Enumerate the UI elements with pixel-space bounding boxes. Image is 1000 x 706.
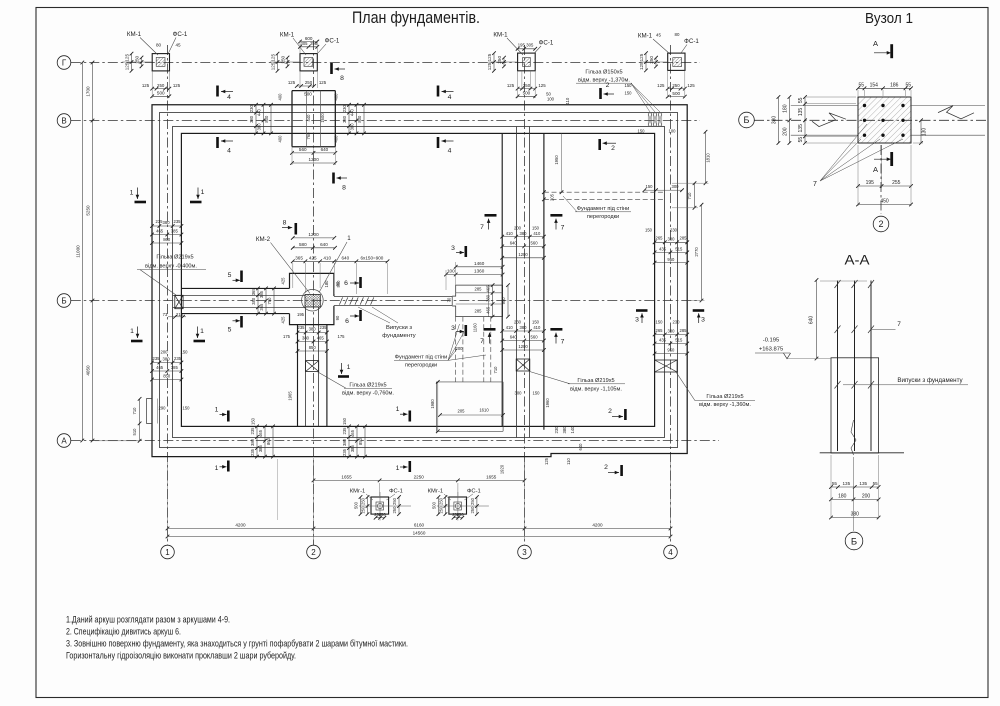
svg-text:235: 235: [342, 448, 347, 456]
svg-text:2250: 2250: [414, 475, 425, 480]
svg-text:5: 5: [228, 327, 232, 334]
porch dims 710 510 290: [139, 399, 141, 441]
svg-text:465: 465: [317, 336, 325, 341]
svg-text:640: 640: [321, 147, 329, 152]
svg-text:150: 150: [646, 184, 654, 189]
svg-text:400: 400: [278, 135, 283, 143]
А-А bubble Б: [845, 532, 863, 550]
svg-text:380: 380: [342, 438, 347, 446]
svg-text:55: 55: [798, 97, 804, 103]
svg-text:1: 1: [396, 465, 400, 472]
svg-text:150: 150: [645, 227, 653, 232]
dim stack bottom wall left: [256, 426, 258, 456]
svg-text:195: 195: [866, 180, 875, 186]
svg-text:465: 465: [156, 229, 164, 234]
svg-text:+163.875: +163.875: [759, 347, 783, 353]
svg-text:відм. верху -1,360м.: відм. верху -1,360м.: [699, 402, 751, 408]
left dimension chain segments 1700 5250 4050: [92, 63, 94, 441]
section flag 7 lower pair: [484, 328, 496, 331]
svg-text:250: 250: [281, 55, 286, 63]
axis 4 line: [670, 45, 672, 545]
svg-text:500: 500: [354, 501, 359, 509]
interior wall axis 3 footing lines: [501, 133, 503, 426]
svg-text:55: 55: [798, 137, 804, 143]
bottom dimension chain 4200 6160 4200: [168, 528, 671, 530]
svg-text:950: 950: [667, 257, 675, 262]
interior wall axis Б wall lines: [173, 295, 306, 297]
porch step bottom left: [147, 399, 152, 424]
svg-text:14560: 14560: [413, 531, 426, 536]
section flag 4 lower-right: [437, 137, 440, 148]
svg-text:1: 1: [215, 407, 219, 414]
svg-text:1700: 1700: [86, 86, 91, 97]
right dim 2770: [701, 205, 703, 301]
svg-text:130: 130: [922, 128, 928, 137]
svg-text:400: 400: [278, 93, 283, 101]
svg-text:305: 305: [301, 41, 309, 46]
svg-text:6160: 6160: [414, 523, 425, 528]
footing КМ-1/ФС-1 at Г axis 4: [668, 53, 685, 70]
svg-text:ФС-1: ФС-1: [539, 40, 554, 47]
svg-text:640: 640: [510, 241, 518, 246]
cross footing inner wall continuation lines: [306, 91, 308, 147]
svg-text:1200: 1200: [518, 252, 528, 257]
svg-text:380: 380: [342, 115, 347, 123]
svg-text:125: 125: [507, 83, 515, 88]
partition slab rectangle: [436, 381, 503, 383]
svg-text:Гільза Ø219х5: Гільза Ø219х5: [156, 255, 193, 261]
svg-text:1: 1: [347, 235, 351, 242]
svg-text:200: 200: [782, 127, 788, 136]
svg-text:135: 135: [859, 481, 867, 486]
svg-text:860: 860: [163, 237, 171, 242]
svg-text:365: 365: [295, 256, 303, 261]
svg-text:110: 110: [565, 97, 570, 104]
svg-text:4: 4: [448, 148, 452, 155]
КМ-2 strip dim row: [293, 260, 388, 262]
svg-text:2. Специфікацію дивитись аркуш: 2. Специфікацію дивитись аркуш 6.: [66, 626, 181, 636]
svg-text:580: 580: [299, 242, 307, 247]
svg-text:200: 200: [514, 225, 522, 230]
svg-text:8: 8: [342, 185, 346, 192]
svg-text:250: 250: [523, 83, 531, 88]
Вузол 1 section arrow A bottom: [890, 152, 893, 166]
svg-text:230: 230: [554, 426, 559, 434]
svg-text:перегородки: перегородки: [587, 214, 619, 220]
svg-text:135: 135: [843, 481, 851, 486]
svg-text:465: 465: [486, 285, 491, 293]
svg-text:250: 250: [438, 497, 443, 505]
svg-text:125: 125: [544, 457, 549, 465]
svg-text:600: 600: [305, 36, 313, 41]
svg-text:410: 410: [533, 325, 541, 330]
svg-text:В: В: [61, 116, 66, 125]
svg-text:200: 200: [456, 346, 464, 351]
svg-text:План фундаментів.: План фундаментів.: [352, 9, 480, 27]
КМ-2 hatched column square: [305, 295, 320, 308]
bottom footing КМг-1/ФС-1 left: [371, 497, 389, 514]
svg-text:125: 125: [487, 53, 492, 61]
svg-text:КМ-1: КМ-1: [280, 32, 295, 39]
svg-text:950: 950: [501, 297, 506, 305]
sleeve axis 3 wall: [516, 359, 530, 371]
svg-text:А: А: [61, 436, 67, 445]
svg-text:фундаменту: фундаменту: [382, 333, 416, 339]
footing КМ-1/ФС-1 at Г axis 1: [152, 54, 169, 71]
svg-text:300: 300: [515, 391, 523, 396]
svg-text:385: 385: [171, 365, 179, 370]
svg-text:5: 5: [228, 272, 232, 279]
КМ-2 footing flare outline: [290, 273, 334, 296]
svg-text:380: 380: [257, 123, 262, 131]
svg-text:Б: Б: [61, 296, 66, 305]
svg-text:1950: 1950: [554, 155, 559, 165]
svg-text:380: 380: [309, 327, 317, 332]
svg-text:8: 8: [283, 219, 287, 226]
axis 3 line: [524, 45, 526, 545]
sleeve right wall: [655, 360, 678, 372]
dim stack Б wall: [257, 288, 259, 313]
svg-text:305: 305: [526, 42, 534, 47]
section flag 4 upper-right: [437, 86, 440, 97]
svg-text:250: 250: [470, 506, 475, 514]
grid bubble В: [57, 114, 71, 128]
А-А bottom dims: [831, 486, 879, 488]
svg-text:1810: 1810: [706, 153, 711, 163]
svg-text:265: 265: [656, 236, 664, 241]
svg-text:КМ-2: КМ-2: [256, 236, 271, 243]
svg-text:710: 710: [687, 192, 692, 200]
dim stack cross bottom: [292, 152, 335, 154]
svg-text:230: 230: [249, 105, 254, 113]
Вузол 1 grid bubble Б: [739, 112, 755, 128]
axis 1 line: [167, 45, 169, 545]
svg-text:250: 250: [672, 83, 680, 88]
svg-text:950: 950: [667, 348, 675, 353]
svg-text:7: 7: [561, 339, 565, 346]
svg-text:3: 3: [635, 317, 639, 324]
svg-text:250: 250: [135, 55, 140, 63]
partition T dims: [456, 266, 503, 268]
svg-text:-0.195: -0.195: [763, 338, 779, 344]
svg-text:ФС-1: ФС-1: [325, 38, 340, 45]
section flag 3 right pair: [636, 309, 648, 312]
svg-text:125: 125: [173, 83, 181, 88]
svg-text:125: 125: [319, 80, 327, 85]
svg-text:1: 1: [347, 364, 351, 371]
svg-text:4200: 4200: [235, 523, 246, 528]
section flag 8 below cross: [332, 173, 335, 184]
svg-text:500: 500: [304, 92, 312, 97]
svg-text:11000: 11000: [75, 245, 80, 258]
svg-text:180: 180: [324, 280, 329, 288]
svg-text:ФС-1: ФС-1: [389, 489, 403, 495]
svg-text:175: 175: [338, 334, 346, 339]
grid bubble 1: [161, 545, 175, 559]
Вузол 1 axis Б dash-dot: [754, 119, 986, 121]
svg-text:800: 800: [264, 115, 269, 123]
svg-text:150: 150: [532, 225, 540, 230]
А-А rebar bars: [837, 281, 839, 452]
svg-text:ФС-1: ФС-1: [684, 38, 699, 45]
axis В line: [71, 120, 700, 122]
svg-text:640: 640: [578, 443, 583, 451]
svg-text:1960: 1960: [545, 398, 550, 408]
svg-text:235: 235: [153, 356, 161, 361]
svg-text:410: 410: [506, 325, 514, 330]
svg-text:295: 295: [310, 41, 318, 46]
svg-text:380: 380: [350, 123, 355, 131]
А-А foundation rectangle: [831, 358, 879, 453]
svg-text:250: 250: [438, 506, 443, 514]
svg-text:465: 465: [258, 429, 263, 437]
svg-text:1: 1: [165, 548, 170, 557]
svg-text:450: 450: [880, 199, 889, 205]
svg-text:150: 150: [533, 391, 541, 396]
svg-text:235: 235: [320, 325, 328, 330]
svg-text:850: 850: [163, 374, 171, 379]
svg-text:1160: 1160: [473, 323, 478, 333]
svg-text:4: 4: [227, 94, 231, 101]
svg-text:465: 465: [350, 429, 355, 437]
svg-text:410: 410: [506, 231, 514, 236]
svg-text:150: 150: [251, 417, 256, 425]
svg-text:відм. верху -0,760м.: відм. верху -0,760м.: [342, 391, 394, 397]
svg-text:1600: 1600: [320, 113, 325, 123]
svg-text:710: 710: [493, 366, 498, 374]
grid bubble 4: [664, 545, 678, 559]
svg-text:186: 186: [890, 83, 899, 89]
КМ-2 strip dim row2: [293, 247, 335, 249]
section flag 1 down near axis 2: [338, 375, 349, 378]
svg-text:195: 195: [297, 312, 305, 317]
rebar strip right of КМ-2: [334, 296, 452, 298]
bottom footings dim row 1655 2250 1655: [314, 479, 525, 481]
svg-text:250: 250: [392, 497, 397, 505]
axis 2 line: [313, 40, 315, 545]
svg-text:425: 425: [280, 277, 285, 285]
svg-text:235: 235: [298, 325, 306, 330]
svg-text:80: 80: [675, 32, 680, 37]
svg-text:860: 860: [266, 437, 271, 445]
interior wall axis Б footing lines: [181, 287, 289, 289]
bottom dim extension lines: [167, 458, 169, 540]
svg-text:7: 7: [480, 224, 484, 231]
svg-text:285: 285: [680, 236, 688, 241]
svg-text:200: 200: [862, 494, 871, 500]
dim stack top wall left of cross: [255, 105, 257, 134]
svg-text:100: 100: [669, 129, 677, 134]
axis Б line: [71, 300, 700, 302]
svg-text:440: 440: [257, 108, 262, 116]
dim stack axis2 wall: [298, 332, 327, 334]
svg-text:1360: 1360: [474, 269, 485, 274]
svg-text:265: 265: [656, 328, 664, 333]
svg-text:3: 3: [522, 548, 527, 557]
svg-text:465: 465: [156, 365, 164, 370]
svg-text:1610: 1610: [479, 408, 489, 413]
svg-text:250: 250: [649, 56, 654, 64]
svg-text:250: 250: [361, 497, 366, 505]
svg-text:КМ-1: КМ-1: [638, 33, 653, 40]
svg-text:195: 195: [518, 42, 526, 47]
svg-text:380: 380: [771, 116, 777, 125]
grid bubble Г: [57, 56, 71, 70]
svg-text:Гільза Ø150х5: Гільза Ø150х5: [585, 70, 622, 76]
svg-text:200: 200: [161, 350, 169, 355]
svg-text:2: 2: [606, 82, 610, 89]
axis А line: [71, 440, 719, 442]
svg-text:125: 125: [538, 83, 546, 88]
svg-text:55: 55: [905, 83, 911, 89]
svg-text:235: 235: [174, 219, 182, 224]
svg-text:Б: Б: [851, 536, 857, 547]
svg-text:235: 235: [174, 356, 182, 361]
sleeve trio top wall: [648, 113, 652, 126]
svg-text:205: 205: [550, 193, 555, 201]
svg-text:7: 7: [897, 321, 901, 328]
svg-text:560: 560: [336, 280, 341, 288]
svg-text:125: 125: [657, 83, 665, 88]
svg-text:4: 4: [227, 148, 231, 155]
footing КМ-1/ФС-1 at Г axis 2: [300, 54, 317, 71]
section flag 2 mid right: [598, 139, 601, 150]
svg-text:5250: 5250: [86, 205, 91, 216]
svg-text:230: 230: [673, 320, 681, 325]
svg-text:Гільза Ø219х5: Гільза Ø219х5: [349, 383, 386, 389]
svg-text:150: 150: [532, 320, 540, 325]
svg-text:380: 380: [486, 294, 491, 302]
svg-text:45: 45: [656, 32, 661, 37]
svg-text:205: 205: [458, 409, 466, 414]
Вузол 1 break zigzag right: [938, 106, 974, 119]
grid bubble А: [57, 434, 71, 448]
svg-text:1200: 1200: [518, 344, 528, 349]
svg-text:250: 250: [305, 80, 313, 85]
svg-text:230: 230: [514, 320, 522, 325]
svg-text:80: 80: [156, 43, 162, 48]
svg-text:125: 125: [288, 80, 296, 85]
svg-text:380: 380: [562, 426, 567, 434]
svg-text:1: 1: [200, 328, 204, 335]
svg-text:500: 500: [157, 91, 165, 96]
svg-text:135: 135: [798, 124, 804, 133]
svg-text:640: 640: [510, 335, 518, 340]
svg-text:250: 250: [392, 506, 397, 514]
svg-text:285: 285: [680, 328, 688, 333]
svg-text:235: 235: [342, 427, 347, 435]
svg-text:150: 150: [656, 320, 664, 325]
svg-text:380: 380: [163, 357, 171, 362]
svg-text:Г: Г: [62, 58, 67, 67]
svg-text:1: 1: [215, 465, 219, 472]
А-А break mark: [851, 420, 856, 455]
svg-text:7: 7: [480, 338, 484, 345]
inner wall line: [173, 127, 665, 438]
svg-text:800: 800: [357, 115, 362, 123]
section flag 4 lower-left: [216, 137, 219, 148]
svg-text:465: 465: [486, 306, 491, 314]
svg-text:КМ-1: КМ-1: [127, 31, 142, 38]
footing КМ-1/ФС-1 at Г axis 3: [518, 53, 536, 71]
sleeve axis 2 wall: [306, 361, 319, 372]
svg-text:410: 410: [323, 256, 331, 261]
svg-text:380: 380: [520, 325, 528, 330]
svg-text:8: 8: [340, 75, 344, 82]
svg-text:55: 55: [858, 83, 864, 89]
svg-text:710: 710: [132, 407, 137, 415]
svg-text:1200: 1200: [309, 157, 320, 162]
svg-text:Випуски з: Випуски з: [386, 325, 412, 331]
svg-text:ФС-1: ФС-1: [467, 489, 481, 495]
svg-text:1: 1: [396, 406, 400, 413]
right dim 710: [694, 183, 696, 208]
svg-text:1: 1: [130, 190, 134, 197]
svg-text:290: 290: [159, 406, 167, 411]
svg-text:235: 235: [250, 448, 255, 456]
svg-text:140: 140: [570, 426, 575, 434]
svg-text:3: 3: [451, 325, 455, 332]
svg-text:640: 640: [320, 242, 328, 247]
svg-text:відм. верху -0,400м.: відм. верху -0,400м.: [145, 264, 197, 270]
svg-text:1: 1: [130, 328, 134, 335]
partition dashed line between axes 3 and 4: [544, 191, 665, 193]
svg-text:100: 100: [447, 269, 455, 274]
svg-text:125: 125: [639, 62, 644, 70]
interior wall axis 2 below Б wall lines: [305, 307, 307, 426]
svg-text:230: 230: [342, 105, 347, 113]
svg-text:Гільза Ø219х5: Гільза Ø219х5: [577, 378, 614, 384]
svg-text:515: 515: [675, 338, 683, 343]
svg-text:150: 150: [638, 129, 646, 134]
dim 73 under left sleeve: [168, 316, 186, 318]
svg-text:380: 380: [520, 231, 528, 236]
svg-text:1920: 1920: [500, 464, 505, 474]
grid bubble 3: [518, 545, 532, 559]
svg-text:Фундамент під стіни: Фундамент під стіни: [395, 355, 448, 361]
svg-text:250: 250: [497, 56, 502, 64]
svg-text:760: 760: [306, 132, 311, 140]
svg-text:500: 500: [672, 91, 680, 96]
svg-text:440: 440: [350, 108, 355, 116]
svg-text:1965: 1965: [288, 391, 293, 401]
svg-text:1655: 1655: [341, 475, 352, 480]
svg-text:Випуски з фундаменту: Випуски з фундаменту: [897, 377, 963, 384]
Вузол 1 bottom dims 195 255 450: [858, 185, 911, 187]
svg-text:Горизонтальну гідроізоляцію ви: Горизонтальну гідроізоляцію виконати про…: [66, 651, 296, 661]
А-А dim 640: [816, 280, 818, 359]
svg-text:510: 510: [132, 428, 137, 436]
Вузол 1 left dims: [804, 97, 806, 143]
svg-text:150: 150: [625, 91, 633, 96]
svg-text:380: 380: [251, 297, 256, 305]
Вузол 1 top dims 55 154 186 55: [858, 87, 911, 89]
dim stack top wall right of cross: [348, 105, 350, 134]
section flag 1 upper pair: [135, 201, 147, 204]
Вузол 1 bubble 2: [873, 216, 889, 232]
svg-text:125: 125: [687, 83, 695, 88]
svg-text:6х150=900: 6х150=900: [361, 256, 384, 261]
inner footing outline: [181, 133, 654, 426]
svg-text:90: 90: [335, 315, 340, 320]
svg-text:1200: 1200: [308, 232, 319, 237]
svg-text:230: 230: [670, 227, 678, 232]
Вузол 1 rebar dots: [863, 104, 866, 107]
svg-text:2: 2: [611, 145, 615, 152]
svg-text:2: 2: [878, 219, 883, 229]
svg-text:154: 154: [870, 83, 879, 89]
dim stack bottom wall mid: [348, 426, 350, 456]
